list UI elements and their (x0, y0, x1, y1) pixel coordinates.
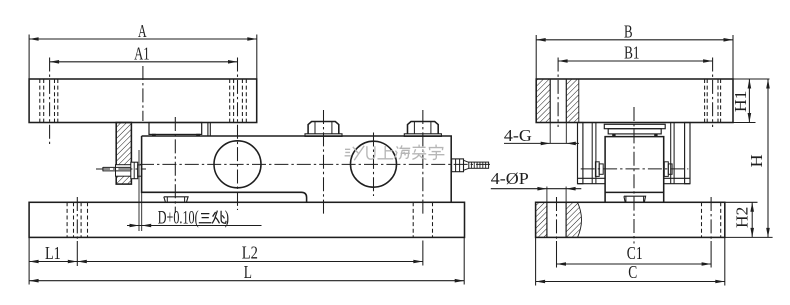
base plate left hole centerline (556, 197, 558, 241)
top plate mid centerline (142, 66, 144, 121)
dimension B (535, 35, 537, 79)
gap D edge lines (138, 150, 140, 231)
step block right of spacer (207, 123, 209, 137)
svg-text:4-ØP: 4-ØP (491, 169, 529, 188)
dimension L1 (28, 237, 30, 284)
top plate left bolt centerline (49, 58, 51, 145)
base plate left hole centerline (76, 197, 78, 241)
label CJK san-chu (three places) (199, 211, 226, 224)
center axis (end view) (633, 107, 635, 244)
base plate right hole hidden lines (412, 202, 414, 237)
bracket left bottom bar (578, 177, 606, 179)
left clamp screw (end view) (595, 162, 599, 177)
leader for D+0.10 (127, 225, 262, 227)
dimension H (725, 236, 773, 238)
bracket left inner plate (591, 123, 593, 184)
base plate section hatch with arc boundary (566, 202, 581, 237)
svg-text:C: C (628, 262, 637, 282)
svg-text:H: H (747, 154, 766, 167)
hex bolt 2 on body (404, 134, 441, 137)
dimension A1 (50, 61, 238, 63)
svg-text:4-G: 4-G (504, 126, 532, 145)
svg-text:H1: H1 (731, 91, 750, 113)
4-OP leader and extension lines (546, 187, 548, 203)
dimension L2 (77, 261, 423, 263)
dimension L (463, 237, 465, 284)
svg-text:C1: C1 (627, 243, 643, 263)
side screw head and washer (131, 162, 138, 179)
right tapped hole centerline (712, 58, 714, 128)
load cell left blind hole (circle) (214, 141, 261, 188)
top plate (left view) (29, 79, 257, 123)
top plate right bolt centerline / circle axis (237, 58, 239, 211)
base plate anchor hole edges (sectioned) (546, 202, 548, 237)
top plate left bolt hole hidden lines (39, 79, 41, 123)
4-G leader and extension lines (549, 123, 551, 144)
side screw slot through column (116, 165, 132, 177)
svg-text:H2: H2 (733, 207, 752, 228)
bracket right inner plate (670, 123, 672, 184)
dimension B1 (558, 60, 713, 62)
base plate right hole centerline (710, 197, 712, 241)
bracket left outer column (578, 123, 583, 184)
bolt 2 centerline (422, 110, 424, 216)
loading axis centerline (174, 117, 176, 213)
load cell right blind hole (circle) (351, 141, 397, 187)
foot pad (end view) (624, 196, 646, 202)
dimension H1 (733, 78, 770, 80)
svg-text:B1: B1 (624, 43, 639, 63)
svg-text:L2: L2 (242, 242, 258, 262)
foot pad under load cell (164, 197, 188, 203)
base plate (end view) (536, 202, 725, 237)
dimension C (535, 237, 537, 285)
cable gland connector (452, 159, 464, 172)
dimension A (28, 35, 30, 79)
dimension H2 (725, 201, 758, 203)
side screw shaft (103, 166, 131, 168)
main horizontal axis centerline (140, 163, 493, 165)
loading cup stack (end view) (604, 124, 665, 128)
svg-text:A1: A1 (134, 44, 149, 64)
right tapped hole hidden (thread) lines (704, 79, 706, 123)
tapped hole G edges (sectioned) (549, 79, 551, 123)
cable spring (469, 162, 489, 168)
top plate section hatch right of hole (566, 79, 579, 123)
left tapped hole centerline (557, 58, 559, 128)
svg-text:B: B (624, 21, 633, 41)
top plate section hatch left of hole (536, 79, 550, 123)
base plate right hole hidden lines (701, 202, 703, 237)
base plate (left view) (29, 202, 464, 237)
base plate left hole hidden lines (66, 202, 68, 237)
svg-text:L1: L1 (45, 243, 61, 263)
top plate (end view) (536, 79, 733, 123)
base plate section hatch left of hole (536, 202, 547, 237)
svg-text:A: A (138, 21, 147, 41)
svg-text:): ) (225, 207, 229, 228)
load cell body (end view) (605, 137, 664, 203)
bolt 1 centerline (323, 110, 325, 216)
watermark EYU Shanghai Yiyu (345, 145, 445, 161)
bracket right bottom bar (664, 177, 690, 179)
svg-text:L: L (244, 262, 252, 282)
bracket right outer column (685, 123, 690, 184)
loading spacer under top plate (149, 123, 202, 135)
hatched spacer column (section) (116, 123, 131, 185)
hex bolt 1 on body (305, 134, 342, 137)
top plate right bolt hole hidden lines (229, 79, 231, 123)
svg-text:D+0.10(: D+0.10( (158, 207, 199, 228)
dimension C1 (557, 263, 712, 265)
load cell body outline (left view) (142, 136, 452, 202)
side screw centerline (96, 168, 146, 170)
right clamp screw (end view) (664, 162, 668, 177)
right circle vertical centerline (373, 133, 375, 197)
